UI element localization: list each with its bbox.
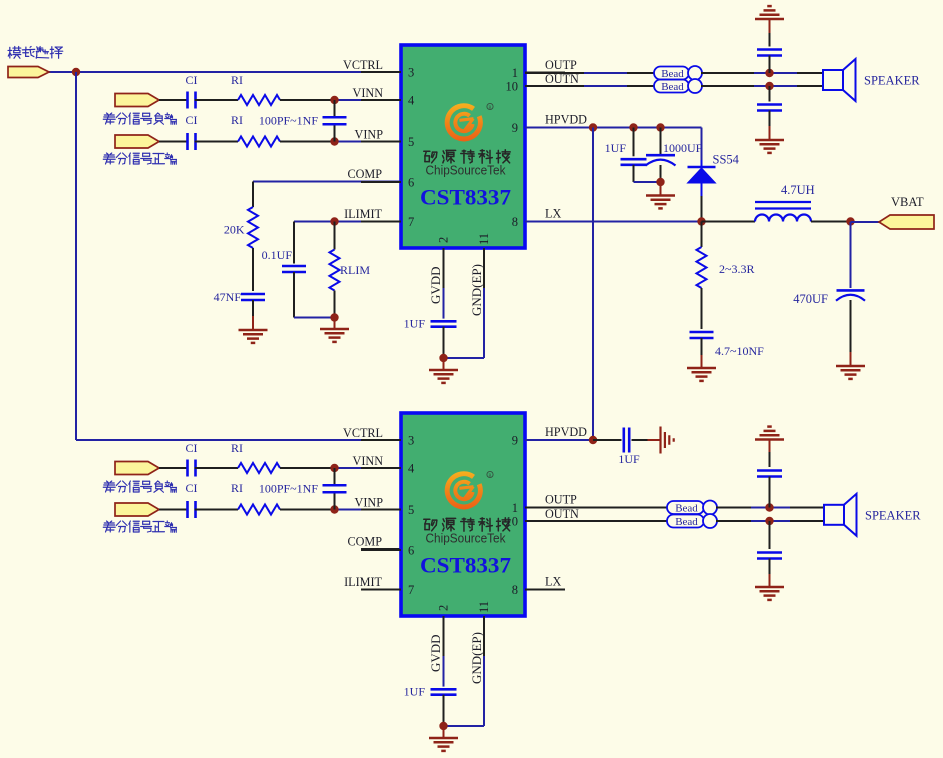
wire CI to RI: [195, 467, 238, 469]
svg-text:0.1UF: 0.1UF: [262, 248, 293, 262]
svg-text:VINP: VINP: [355, 496, 384, 510]
wire 2~3.3R branch: [701, 222, 703, 248]
chip Chinese name text: [424, 518, 510, 531]
svg-text:ILIMIT: ILIMIT: [344, 575, 382, 589]
power ground (rotated): [659, 427, 661, 454]
ground under 4.7~10NF: [687, 367, 716, 370]
capacitor 1UF HPVDD: [621, 158, 647, 161]
wire RLIM to ground junction: [334, 291, 336, 318]
svg-text:8: 8: [512, 583, 518, 597]
svg-text:3: 3: [408, 66, 414, 80]
svg-text:RI: RI: [231, 481, 243, 495]
stub LX bottom: [525, 589, 565, 591]
wire 20K to 47NF: [252, 248, 254, 291]
wire LX top: [525, 221, 702, 223]
node VINP junction: [330, 505, 338, 513]
capacitor CI (VINP): [186, 501, 189, 518]
svg-text:ChipSourceTek: ChipSourceTek: [426, 164, 507, 178]
svg-text:VBAT: VBAT: [891, 195, 924, 209]
wire diode to LX: [701, 183, 703, 196]
svg-text:11: 11: [477, 233, 491, 245]
wire VINN to pin 4: [335, 99, 402, 101]
capacitor 4.7~10NF: [690, 331, 714, 334]
wire VCTRL top: [48, 71, 76, 73]
svg-text:1: 1: [512, 66, 518, 80]
wire 2~3.3R to 4.7~10NF: [701, 288, 703, 329]
svg-text:10: 10: [506, 515, 519, 529]
svg-text:CI: CI: [186, 113, 198, 127]
wire RLIM branch: [334, 222, 336, 250]
capacitor OUTP to ground top: [757, 48, 782, 51]
node 1000UF ground junction: [656, 178, 664, 186]
capacitor 1000UF polarized: [646, 154, 675, 157]
node VINN junction: [330, 96, 338, 104]
label mode select: [8, 47, 63, 59]
node LX diode junction: [697, 217, 705, 225]
svg-text:Bead: Bead: [661, 68, 684, 80]
connector VBAT: [879, 215, 934, 229]
capacitor 100PF~1NF between VINN and VINP: [334, 468, 336, 485]
svg-text:100PF~1NF: 100PF~1NF: [259, 113, 319, 127]
wire 1000UF branch: [660, 128, 662, 156]
capacitor 470UF polarized: [837, 289, 865, 292]
wire inductor to VBAT junction: [811, 221, 851, 223]
wire VINP left: [159, 509, 188, 511]
wire OUTN top: [525, 85, 584, 87]
wire bead to speaker junction OUTN: [701, 85, 754, 87]
ferrite bead OUTN bottom: [667, 515, 704, 528]
svg-text:4: 4: [408, 462, 415, 476]
connector differential positive input: [115, 135, 159, 148]
capacitor 1UF GVDD U1: [431, 320, 457, 323]
svg-text:SS54: SS54: [713, 153, 740, 167]
wire 0.1UF branch down: [293, 222, 295, 264]
wire VCTRL bottom: [76, 439, 401, 441]
svg-text:OUTN: OUTN: [545, 507, 579, 521]
svg-text:SPEAKER: SPEAKER: [865, 509, 921, 523]
svg-text:GND(EP): GND(EP): [469, 264, 484, 316]
svg-text:VCTRL: VCTRL: [343, 426, 383, 440]
svg-text:1UF: 1UF: [605, 141, 627, 155]
label diff signal positive: [103, 521, 176, 532]
wire VINN left: [159, 467, 188, 469]
wire HPVDD vertical bus: [592, 128, 594, 441]
inductor 4.7UH: [755, 215, 811, 222]
node mode-select junction: [72, 68, 80, 76]
wire junction to VBAT connector: [851, 221, 880, 223]
svg-text:OUTP: OUTP: [545, 58, 577, 72]
wire GVDD 1UF branch U2: [443, 656, 445, 687]
resistor RLIM: [330, 250, 340, 291]
svg-text:CST8337: CST8337: [420, 185, 511, 210]
svg-text:VCTRL: VCTRL: [343, 58, 383, 72]
svg-text:Bead: Bead: [675, 502, 698, 514]
label diff signal negative: [103, 113, 176, 124]
node RLIM ground junction: [330, 313, 338, 321]
connector differential positive input: [115, 503, 159, 516]
svg-text:6: 6: [408, 176, 414, 190]
svg-text:VINN: VINN: [353, 454, 384, 468]
svg-text:4: 4: [408, 94, 415, 108]
capacitor 1UF GVDD U2: [431, 688, 457, 691]
svg-text:SPEAKER: SPEAKER: [864, 74, 920, 88]
connector differential negative input: [115, 94, 159, 107]
svg-text:VINP: VINP: [355, 128, 384, 142]
svg-text:RI: RI: [231, 73, 243, 87]
svg-text:4.7~10NF: 4.7~10NF: [715, 344, 764, 358]
capacitor OUTN to ground top: [769, 86, 771, 102]
wire VINP left: [159, 141, 188, 143]
wire bead to speaker junction OUTP: [701, 72, 754, 74]
resistor RI (VINN): [238, 95, 280, 105]
wire ILIMIT: [294, 221, 401, 223]
svg-text:CI: CI: [186, 441, 198, 455]
ferrite bead OUTN top: [654, 80, 689, 93]
resistor RI (VINP): [238, 505, 280, 515]
svg-text:1UF: 1UF: [404, 685, 426, 699]
ground under U1: [429, 369, 458, 372]
svg-text:6: 6: [408, 544, 414, 558]
svg-text:9: 9: [512, 434, 518, 448]
wire HPVDD to diode: [701, 128, 703, 161]
svg-text:Bead: Bead: [661, 81, 684, 93]
svg-text:5: 5: [408, 135, 414, 149]
wire COMP down to 20K: [252, 182, 254, 208]
wire RI to VINP junction: [280, 141, 335, 143]
wire 1UF cap branch: [633, 128, 635, 157]
wire OUTP top: [525, 72, 584, 74]
node OUTP junction top: [765, 69, 773, 77]
ground under 1000UF: [646, 194, 675, 197]
wire RI to VINN junction: [280, 99, 335, 101]
ground above OUTP cap bottom (inverted): [755, 438, 784, 441]
svg-text:3: 3: [408, 434, 414, 448]
svg-text:2~3.3R: 2~3.3R: [719, 262, 755, 276]
wire CI to RI (VINP): [195, 509, 238, 511]
wire cap to power ground: [632, 439, 648, 441]
wire mode-select vertical bus: [75, 72, 77, 440]
stub ILIMIT bottom: [361, 589, 401, 591]
svg-text:OUTN: OUTN: [545, 72, 579, 86]
capacitor 1UF series bottom: [622, 428, 625, 453]
wire 470UF branch: [850, 222, 852, 288]
capacitor OUTN to ground bottom: [769, 521, 771, 549]
capacitor CI (VINN): [186, 92, 189, 109]
node OUTN junction bottom: [765, 517, 773, 525]
capacitor 0.1UF: [282, 265, 306, 268]
svg-text:COMP: COMP: [347, 167, 382, 181]
chip Chinese name text: [424, 150, 510, 163]
svg-text:7: 7: [408, 215, 414, 229]
svg-text:Bead: Bead: [675, 516, 698, 528]
wire LX to inductor: [702, 221, 756, 223]
wire VINN left: [159, 99, 188, 101]
capacitor 47NF: [241, 293, 265, 296]
svg-text:100PF~1NF: 100PF~1NF: [259, 481, 319, 495]
ground under RLIM: [320, 328, 349, 331]
wire GND(EP) U1: [483, 288, 485, 358]
svg-text:RI: RI: [231, 441, 243, 455]
wire VINP to pin 5: [335, 509, 402, 511]
svg-text:HPVDD: HPVDD: [545, 425, 587, 439]
label diff signal positive: [103, 153, 176, 164]
wire CI to RI: [195, 99, 238, 101]
label diff signal negative: [103, 481, 176, 492]
svg-text:1UF: 1UF: [618, 452, 640, 466]
svg-text:CI: CI: [186, 73, 198, 87]
wire CI to RI (VINP): [195, 141, 238, 143]
svg-text:RI: RI: [231, 113, 243, 127]
svg-text:2: 2: [437, 605, 451, 611]
node HPVDD bus junction: [589, 123, 597, 131]
svg-text:8: 8: [512, 215, 518, 229]
speaker SPK2: [824, 505, 844, 525]
wire GND(EP) U2: [483, 656, 485, 726]
resistor 20K: [248, 207, 258, 248]
svg-text:7: 7: [408, 583, 414, 597]
diode SS54: [688, 166, 716, 169]
wire top ground to cap: [769, 19, 771, 33]
ground under U2: [429, 737, 458, 740]
wire bead to junction OUTN bottom: [716, 520, 751, 522]
wire HPVDD top: [525, 127, 702, 129]
speaker SPK1: [823, 70, 843, 90]
svg-text:5: 5: [408, 503, 414, 517]
svg-text:COMP: COMP: [347, 535, 382, 549]
wire HPVDD bottom: [525, 439, 593, 441]
svg-text:47NF: 47NF: [214, 290, 242, 304]
capacitor CI (VINN): [186, 460, 189, 477]
ground above OUTP cap (inverted): [755, 18, 784, 21]
svg-text:RLIM: RLIM: [340, 263, 370, 277]
svg-text:VINN: VINN: [353, 86, 384, 100]
svg-text:LX: LX: [545, 575, 561, 589]
capacitor OUTP to ground bottom: [757, 469, 782, 472]
ground under 47NF: [239, 329, 268, 332]
node HPVDD bus junction bottom: [589, 436, 597, 444]
wire VINP to pin 5: [335, 141, 402, 143]
svg-text:11: 11: [477, 601, 491, 613]
node HPVDD 1UF junction: [629, 123, 637, 131]
node GVDD ground junction U1: [439, 354, 447, 362]
resistor RI (VINP): [238, 137, 280, 147]
wire RI to VINN junction: [280, 467, 335, 469]
wire OUTP bottom: [525, 507, 667, 509]
svg-text:1: 1: [512, 501, 518, 515]
svg-text:1000UF: 1000UF: [663, 141, 703, 155]
svg-text:20K: 20K: [224, 223, 245, 237]
resistor RI (VINN): [238, 463, 280, 473]
ferrite bead OUTP top: [654, 67, 689, 80]
ferrite bead OUTP bottom: [667, 501, 704, 514]
svg-text:ChipSourceTek: ChipSourceTek: [426, 532, 507, 546]
wire GVDD 1UF branch U1: [443, 288, 445, 319]
resistor 2~3.3R: [697, 247, 707, 288]
node VINN junction: [330, 464, 338, 472]
svg-text:9: 9: [512, 121, 518, 135]
svg-text:470UF: 470UF: [793, 292, 828, 306]
wire junction to ground U1: [443, 358, 445, 370]
wire COMP: [253, 181, 401, 183]
wire 0.1UF to bottom: [293, 272, 295, 318]
chip U2 CST8337 bottom: [401, 413, 525, 616]
node ILIMIT junction: [330, 217, 338, 225]
svg-text:2: 2: [437, 237, 451, 243]
ground below OUTN cap bottom: [755, 586, 784, 589]
wire RI to VINP junction: [280, 509, 335, 511]
node OUTN junction top: [765, 82, 773, 90]
svg-text:LX: LX: [545, 207, 561, 221]
connector differential negative input: [115, 462, 159, 475]
svg-text:4.7UH: 4.7UH: [781, 183, 815, 197]
node GVDD ground junction U2: [439, 722, 447, 730]
svg-text:CI: CI: [186, 481, 198, 495]
node VINP junction: [330, 137, 338, 145]
svg-text:ILIMIT: ILIMIT: [344, 207, 382, 221]
wire VINN to pin 4: [335, 467, 402, 469]
node VBAT junction: [846, 217, 854, 225]
svg-text:OUTP: OUTP: [545, 493, 577, 507]
capacitor 100PF~1NF between VINN and VINP: [334, 100, 336, 117]
svg-text:GVDD: GVDD: [428, 266, 443, 304]
svg-text:GVDD: GVDD: [428, 634, 443, 672]
node OUTP junction bottom: [765, 503, 773, 511]
stub COMP bottom: [361, 548, 401, 550]
wire HPVDD to 1UF series cap: [593, 439, 622, 441]
svg-text:GND(EP): GND(EP): [469, 632, 484, 684]
ground below OUTN cap top: [755, 139, 784, 142]
capacitor CI (VINP): [186, 133, 189, 150]
connector P1 mode select: [8, 67, 49, 78]
wire OUTN bottom: [525, 520, 667, 522]
wire bead to junction OUTP bottom: [716, 507, 751, 509]
svg-text:10: 10: [506, 80, 519, 94]
svg-text:HPVDD: HPVDD: [545, 113, 587, 127]
wire to ground: [334, 318, 336, 330]
ground under 470UF: [836, 365, 865, 368]
wire 47NF to ground: [252, 300, 254, 316]
svg-text:CST8337: CST8337: [420, 553, 511, 578]
node HPVDD 1000UF junction: [656, 123, 664, 131]
svg-text:1UF: 1UF: [404, 317, 426, 331]
chip U1 CST8337 top: [401, 45, 525, 248]
